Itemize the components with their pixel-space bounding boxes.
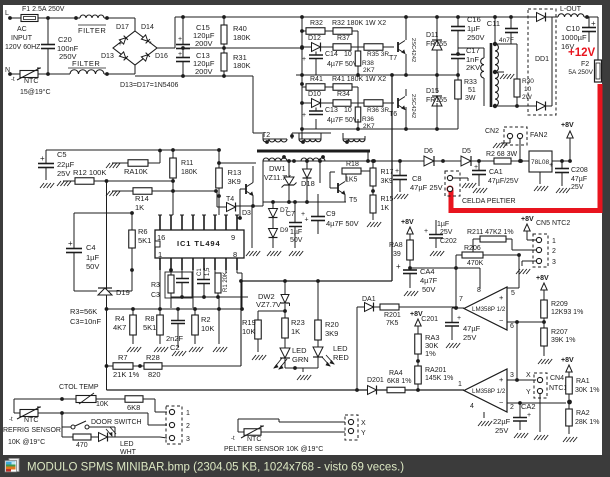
svg-text:R15: R15 [381, 196, 394, 203]
svg-text:F1 2.5A 250V: F1 2.5A 250V [22, 6, 65, 13]
svg-text:120V 60HZ: 120V 60HZ [5, 44, 41, 51]
svg-text:25V: 25V [440, 229, 453, 236]
svg-text:R32 180K 1W X2: R32 180K 1W X2 [332, 20, 386, 27]
svg-text:200V: 200V [195, 67, 213, 76]
svg-text:R32: R32 [310, 20, 323, 27]
svg-text:−: − [499, 398, 504, 407]
svg-text:REFRIG SENSOR: REFRIG SENSOR [3, 427, 61, 434]
svg-text:3: 3 [510, 372, 514, 379]
svg-text:+: + [395, 168, 399, 175]
svg-text:1µF: 1µF [437, 221, 449, 228]
svg-text:GRN: GRN [292, 355, 309, 364]
svg-text:R7: R7 [118, 353, 128, 362]
svg-text:C14: C14 [325, 51, 338, 58]
svg-text:CELDA PELTIER: CELDA PELTIER [462, 198, 516, 205]
svg-text:1K: 1K [381, 205, 390, 212]
svg-text:39: 39 [393, 251, 401, 258]
svg-text:3: 3 [186, 436, 190, 443]
svg-text:NTC: NTC [24, 417, 38, 424]
svg-text:51: 51 [468, 87, 476, 94]
svg-text:C5: C5 [57, 150, 67, 159]
svg-text:C10: C10 [566, 24, 580, 33]
svg-text:10K @19°C: 10K @19°C [8, 438, 45, 446]
svg-text:C2: C2 [170, 343, 180, 352]
svg-text:D7: D7 [280, 207, 289, 214]
svg-text:+: + [118, 41, 122, 48]
svg-text:39K 1%: 39K 1% [551, 337, 576, 344]
svg-text:1: 1 [158, 250, 162, 259]
svg-text:D5: D5 [462, 148, 471, 155]
svg-text:CTOL TEMP: CTOL TEMP [59, 384, 99, 391]
svg-text:+: + [591, 19, 596, 28]
svg-text:LED: LED [292, 346, 307, 355]
svg-text:2KV: 2KV [466, 63, 480, 72]
svg-text:D3: D3 [242, 210, 251, 217]
svg-text:4: 4 [470, 403, 474, 410]
svg-text:21K 1%: 21K 1% [113, 370, 140, 379]
svg-text:1000µF: 1000µF [561, 33, 587, 42]
svg-text:8: 8 [233, 250, 237, 259]
svg-text:RA201: RA201 [425, 367, 447, 374]
svg-text:D9: D9 [280, 227, 289, 234]
svg-text:D201: D201 [367, 377, 384, 384]
svg-text:R3: R3 [151, 282, 160, 289]
svg-text:10: 10 [344, 107, 352, 114]
svg-text:CN2: CN2 [485, 128, 499, 135]
svg-text:5: 5 [511, 290, 515, 297]
svg-text:+: + [396, 262, 401, 271]
svg-text:10K: 10K [242, 327, 255, 336]
svg-text:+12V: +12V [568, 47, 596, 59]
svg-text:1: 1 [552, 238, 556, 245]
svg-text:CN5 NTC2: CN5 NTC2 [536, 220, 570, 227]
svg-text:D10: D10 [308, 91, 321, 98]
svg-text:10: 10 [344, 51, 352, 58]
svg-text:3K9: 3K9 [325, 329, 338, 338]
svg-text:1K: 1K [291, 327, 300, 336]
svg-text:-t: -t [11, 77, 15, 83]
svg-text:CA2: CA2 [521, 402, 536, 411]
svg-text:R13: R13 [228, 168, 242, 177]
svg-text:LM358P 1/2: LM358P 1/2 [472, 388, 506, 395]
svg-text:145K 1%: 145K 1% [425, 375, 453, 382]
svg-text:1K: 1K [135, 203, 144, 212]
svg-text:1µF: 1µF [86, 253, 99, 262]
svg-text:180K: 180K [233, 33, 251, 42]
svg-text:+: + [474, 164, 478, 171]
svg-text:50V: 50V [290, 237, 303, 244]
svg-text:R2: R2 [201, 315, 211, 324]
svg-text:50V: 50V [422, 285, 435, 294]
svg-text:D19: D19 [116, 288, 130, 297]
svg-text:+: + [178, 36, 182, 43]
svg-text:R17: R17 [381, 169, 394, 176]
svg-text:R33: R33 [464, 79, 477, 86]
svg-text:6: 6 [510, 323, 514, 330]
svg-text:−: − [499, 316, 504, 325]
svg-text:T4: T4 [226, 196, 234, 203]
svg-text:47µF 25V: 47µF 25V [410, 183, 443, 192]
svg-text:4µ7F 50V: 4µ7F 50V [327, 61, 358, 68]
svg-text:2: 2 [510, 404, 514, 411]
svg-text:T7: T7 [389, 55, 397, 62]
svg-text:Y: Y [361, 430, 366, 437]
svg-text:D16: D16 [155, 53, 168, 60]
svg-text:7K5: 7K5 [386, 320, 399, 327]
svg-text:C3: C3 [151, 292, 160, 299]
svg-text:250V: 250V [467, 33, 485, 42]
svg-text:+: + [178, 51, 182, 58]
svg-text:F2: F2 [581, 61, 589, 68]
svg-text:RA8: RA8 [389, 242, 403, 249]
svg-text:+: + [40, 154, 45, 163]
svg-text:LED: LED [333, 344, 348, 353]
svg-text:R11: R11 [181, 160, 193, 167]
svg-text:CA1: CA1 [489, 169, 503, 176]
svg-text:1%: 1% [425, 349, 436, 358]
svg-text:L-OUT: L-OUT [560, 6, 582, 13]
svg-text:3: 3 [552, 259, 556, 266]
svg-text:R18: R18 [346, 161, 359, 168]
svg-text:+: + [301, 211, 305, 218]
svg-text:R8: R8 [145, 314, 155, 323]
svg-text:8: 8 [477, 287, 481, 294]
svg-text:9: 9 [231, 233, 235, 242]
svg-text:2n2F: 2n2F [166, 334, 184, 343]
svg-text:INPUT: INPUT [11, 35, 33, 42]
svg-text:IC1 TL494: IC1 TL494 [177, 239, 221, 248]
svg-text:25V: 25V [495, 426, 508, 435]
svg-text:C8: C8 [412, 174, 422, 183]
svg-text:C208: C208 [571, 167, 588, 174]
svg-text:+: + [527, 412, 531, 419]
svg-text:R201: R201 [384, 312, 401, 319]
svg-text:C4: C4 [86, 243, 96, 252]
svg-text:R34: R34 [337, 91, 350, 98]
svg-text:1µF: 1µF [290, 229, 302, 236]
svg-text:2SC4242: 2SC4242 [410, 38, 416, 62]
svg-text:+8V: +8V [401, 219, 414, 226]
svg-text:470: 470 [76, 442, 88, 449]
svg-text:R28: R28 [146, 353, 160, 362]
svg-text:X: X [526, 372, 531, 379]
svg-text:L: L [5, 10, 9, 17]
svg-text:MODULO SPMS MINIBAR.bmp (2304.: MODULO SPMS MINIBAR.bmp (2304.05 KB, 102… [27, 462, 404, 474]
svg-text:4n7F: 4n7F [499, 37, 514, 44]
svg-text:+: + [499, 293, 504, 302]
svg-text:2W: 2W [522, 94, 533, 101]
svg-text:+: + [424, 228, 428, 235]
svg-text:C20: C20 [58, 35, 72, 44]
svg-text:R23: R23 [291, 318, 305, 327]
svg-text:C3=10nF: C3=10nF [70, 317, 101, 326]
svg-text:R36: R36 [362, 116, 374, 123]
svg-text:R40: R40 [233, 24, 247, 33]
svg-text:T6: T6 [389, 111, 397, 118]
svg-text:R19: R19 [242, 318, 256, 327]
svg-text:250V: 250V [59, 52, 77, 61]
svg-text:2: 2 [186, 423, 190, 430]
svg-text:C1: C1 [197, 268, 203, 276]
svg-text:RED: RED [333, 353, 349, 362]
svg-text:D18: D18 [301, 179, 315, 188]
svg-text:C9: C9 [326, 209, 336, 218]
svg-text:+: + [457, 315, 461, 322]
svg-text:C201: C201 [421, 316, 438, 323]
svg-text:DD1: DD1 [535, 56, 549, 63]
svg-text:50V: 50V [86, 262, 99, 271]
svg-text:D13: D13 [101, 53, 114, 60]
svg-text:R41: R41 [310, 76, 323, 83]
svg-text:AC: AC [17, 26, 27, 33]
svg-text:+8V: +8V [536, 275, 549, 282]
svg-text:4µ7F: 4µ7F [420, 276, 438, 285]
svg-text:7: 7 [459, 296, 463, 303]
svg-text:R38: R38 [362, 60, 374, 67]
svg-text:X: X [361, 420, 366, 427]
svg-text:-t: -t [231, 436, 235, 442]
svg-text:DW1: DW1 [269, 164, 286, 173]
svg-text:RA4: RA4 [389, 370, 403, 377]
svg-text:RA1: RA1 [576, 378, 590, 385]
svg-text:15@19°C: 15@19°C [20, 88, 51, 96]
svg-text:R12 100K: R12 100K [73, 168, 106, 177]
svg-text:R20: R20 [325, 320, 339, 329]
svg-text:1,5: 1,5 [205, 267, 211, 276]
svg-text:R37: R37 [337, 35, 350, 42]
svg-text:C202: C202 [440, 238, 457, 245]
svg-text:+: + [68, 239, 73, 248]
svg-text:LM358P 1/2: LM358P 1/2 [472, 306, 506, 313]
svg-text:22µF: 22µF [57, 160, 75, 169]
svg-text:25V: 25V [463, 333, 476, 342]
svg-text:+: + [499, 375, 504, 384]
svg-text:3W: 3W [465, 95, 476, 102]
svg-text:47µF/25V: 47µF/25V [488, 178, 519, 185]
svg-text:D13=D17=1N5406: D13=D17=1N5406 [120, 82, 178, 89]
svg-text:R206: R206 [464, 245, 481, 252]
svg-text:FAN2: FAN2 [530, 132, 548, 139]
svg-text:47µF: 47µF [463, 324, 481, 333]
svg-text:5A 250V: 5A 250V [568, 69, 593, 76]
svg-text:Y: Y [526, 389, 531, 396]
svg-text:C11: C11 [487, 19, 500, 28]
svg-text:22µF: 22µF [493, 417, 511, 426]
svg-text:12K93 1%: 12K93 1% [551, 309, 583, 316]
svg-text:FILTER: FILTER [78, 26, 106, 35]
svg-text:-t: -t [9, 417, 13, 423]
svg-text:C16: C16 [467, 15, 481, 24]
svg-text:+: + [305, 217, 309, 224]
svg-text:4µ7F 50V: 4µ7F 50V [326, 219, 359, 228]
svg-text:+: + [302, 112, 306, 119]
svg-text:T5: T5 [349, 197, 357, 204]
svg-text:180K: 180K [181, 169, 198, 176]
svg-text:R2 68 3W: R2 68 3W [486, 151, 518, 158]
svg-text:28K 1%: 28K 1% [575, 419, 600, 426]
svg-text:5K1: 5K1 [138, 236, 151, 245]
svg-text:6K8: 6K8 [127, 403, 140, 412]
svg-text:10K: 10K [201, 324, 214, 333]
svg-text:200V: 200V [195, 39, 213, 48]
svg-text:10K: 10K [96, 401, 109, 408]
svg-text:D6: D6 [424, 148, 433, 155]
svg-text:47µF: 47µF [571, 176, 587, 183]
svg-text:R36 3R: R36 3R [367, 107, 389, 114]
svg-text:DOOR SWITCH: DOOR SWITCH [91, 419, 142, 426]
svg-text:R4: R4 [115, 314, 125, 323]
svg-text:PELTIER SENSOR 10K @19°C: PELTIER SENSOR 10K @19°C [224, 445, 323, 453]
svg-text:25V: 25V [57, 169, 70, 178]
svg-text:VZ7.7V: VZ7.7V [256, 300, 281, 309]
svg-text:1µF: 1µF [467, 24, 480, 33]
svg-text:+8V: +8V [561, 357, 574, 364]
svg-text:D12: D12 [308, 35, 321, 42]
svg-text:R35 3R: R35 3R [367, 51, 389, 58]
svg-text:C17: C17 [466, 46, 480, 55]
svg-text:4K7: 4K7 [113, 323, 126, 332]
svg-text:2: 2 [552, 248, 556, 255]
svg-text:C13: C13 [325, 107, 338, 114]
svg-text:LED: LED [120, 441, 134, 448]
svg-text:R207: R207 [551, 329, 568, 336]
svg-text:R1 20K: R1 20K [223, 272, 229, 292]
svg-text:D17: D17 [116, 24, 129, 31]
svg-text:+: + [302, 56, 306, 63]
svg-text:3K9: 3K9 [228, 177, 241, 186]
svg-text:+: + [549, 162, 553, 169]
svg-text:1: 1 [186, 410, 190, 417]
svg-text:CN4: CN4 [550, 375, 564, 382]
svg-text:25V: 25V [571, 184, 584, 191]
svg-text:R41 180K 1W X2: R41 180K 1W X2 [332, 76, 386, 83]
svg-text:+8V: +8V [561, 122, 574, 129]
svg-text:2K7: 2K7 [363, 67, 375, 74]
svg-text:6K8 1%: 6K8 1% [387, 378, 412, 385]
svg-text:1: 1 [458, 381, 462, 388]
svg-text:2SC4242: 2SC4242 [410, 94, 416, 118]
svg-text:1K5: 1K5 [345, 177, 358, 184]
svg-text:30K 1%: 30K 1% [575, 387, 600, 394]
svg-text:+8V: +8V [521, 216, 534, 223]
svg-text:R211 47K2 1%: R211 47K2 1% [467, 229, 514, 236]
svg-text:D14: D14 [141, 24, 154, 31]
svg-text:820: 820 [148, 370, 161, 379]
svg-text:R6: R6 [138, 227, 148, 236]
svg-text:NTC: NTC [247, 436, 261, 443]
svg-text:R209: R209 [551, 301, 568, 308]
svg-text:5K1: 5K1 [143, 323, 156, 332]
svg-text:*: * [149, 41, 152, 48]
svg-text:RA10K: RA10K [124, 167, 148, 176]
svg-text:FR155: FR155 [426, 41, 447, 48]
svg-text:NTC: NTC [24, 78, 38, 85]
svg-text:470K: 470K [467, 260, 484, 267]
svg-text:WHT: WHT [120, 449, 137, 456]
svg-text:R3=56K: R3=56K [70, 307, 97, 316]
svg-text:78L08: 78L08 [531, 159, 549, 166]
svg-text:R14: R14 [135, 194, 149, 203]
svg-text:3K9: 3K9 [381, 178, 394, 185]
svg-text:180K: 180K [233, 61, 251, 70]
svg-text:NTC1: NTC1 [549, 385, 567, 392]
svg-text:FR155: FR155 [426, 97, 447, 104]
svg-text:16: 16 [157, 233, 165, 242]
svg-text:4µ7F 50V: 4µ7F 50V [327, 117, 358, 124]
svg-text:RA2: RA2 [576, 410, 590, 417]
